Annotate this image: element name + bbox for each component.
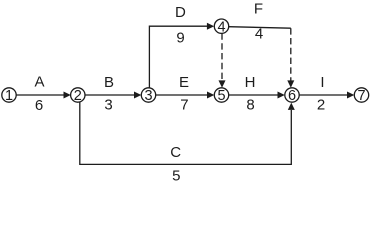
- wire dashed dummy arrow 4-5: [219, 33, 226, 87]
- svg-text:F: F: [254, 1, 263, 18]
- svg-text:2: 2: [317, 97, 325, 114]
- node 4 circle: [214, 19, 228, 33]
- svg-text:7: 7: [357, 88, 365, 104]
- svg-text:4: 4: [217, 19, 225, 35]
- svg-text:6: 6: [35, 97, 43, 114]
- svg-text:I: I: [320, 74, 324, 91]
- wire activity I arrow 6-7: [299, 92, 354, 99]
- wire activity C elbow 2-6 via bottom: [80, 102, 295, 164]
- wire activity A arrow 1-2: [16, 92, 71, 99]
- svg-text:A: A: [34, 74, 44, 91]
- wire activity F line from node 4 to corner: [229, 27, 291, 29]
- node 3 circle: [141, 88, 155, 102]
- node 6 circle: [285, 88, 299, 102]
- svg-text:2: 2: [74, 88, 82, 104]
- svg-text:3: 3: [104, 97, 112, 114]
- svg-text:7: 7: [180, 97, 188, 114]
- svg-text:H: H: [245, 74, 256, 91]
- wire activity D arrow 3-4 elbow up: [149, 23, 214, 88]
- svg-text:5: 5: [217, 88, 225, 104]
- svg-text:C: C: [170, 144, 181, 161]
- svg-text:B: B: [104, 74, 114, 91]
- svg-text:5: 5: [172, 167, 180, 184]
- svg-text:E: E: [179, 74, 189, 91]
- node 1 circle: [2, 88, 16, 102]
- svg-text:4: 4: [255, 26, 263, 43]
- svg-text:D: D: [175, 4, 186, 21]
- wire activity B arrow 2-3: [85, 92, 141, 99]
- svg-text:8: 8: [246, 97, 254, 114]
- wire dashed dummy from F corner down to node 6: [287, 28, 294, 87]
- svg-text:1: 1: [5, 88, 13, 104]
- svg-text:9: 9: [176, 29, 184, 46]
- svg-text:6: 6: [288, 88, 296, 104]
- wire activity E arrow 3-5: [156, 92, 215, 99]
- node 2 circle: [71, 88, 85, 102]
- node 5 circle: [214, 88, 228, 102]
- svg-text:3: 3: [144, 88, 152, 104]
- wire activity H arrow 5-6: [229, 92, 285, 99]
- node 7 circle: [354, 88, 368, 102]
